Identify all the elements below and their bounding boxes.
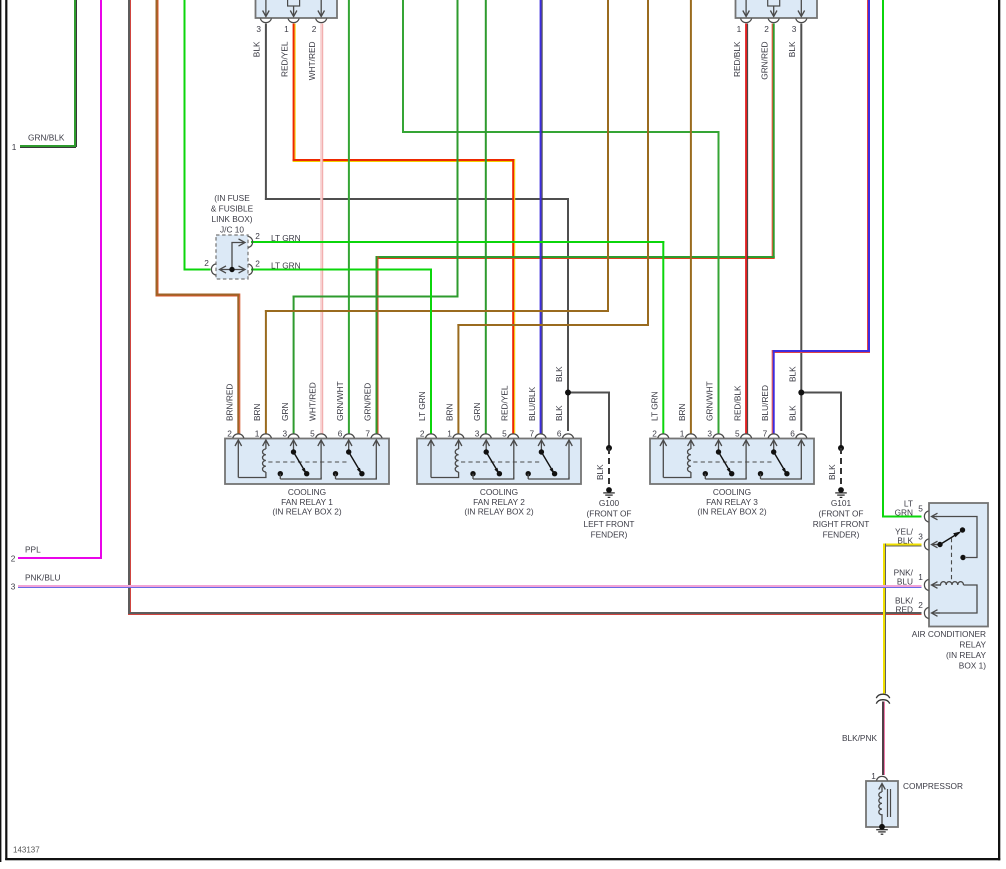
wire BRN horizontal run to relay 2: [457, 324, 649, 326]
svg-text:6: 6: [790, 429, 795, 439]
cooling fan relay 2 pin 1 arc: [453, 434, 464, 438]
svg-text:3: 3: [256, 24, 261, 34]
cooling fan relay 2 internals (coil and contacts): [428, 440, 573, 479]
svg-text:WHT/RED: WHT/RED: [307, 382, 317, 421]
wire BRN/RED vertical from top: [156, 0, 159, 296]
diagram border left: [5, 0, 7, 860]
wire BLK from fan motor 1 pin 3: [265, 24, 267, 201]
svg-text:BLK: BLK: [252, 41, 262, 57]
svg-text:BLK: BLK: [788, 405, 798, 421]
fan motor 2 pin 1 arc: [741, 18, 752, 22]
svg-text:6: 6: [557, 429, 562, 439]
svg-text:& FUSIBLE: & FUSIBLE: [211, 204, 254, 214]
wire BLK junction branch to G101: [801, 392, 842, 394]
svg-text:BLK: BLK: [788, 366, 798, 382]
svg-text:J/C 10: J/C 10: [220, 225, 244, 235]
compressor case ground: [876, 824, 888, 835]
wire GRN/RED from fan motor 2 pin 2: [772, 24, 775, 259]
wire BLK junction to relay 2 pin 6: [567, 393, 569, 432]
svg-text:COOLING: COOLING: [713, 487, 751, 497]
svg-text:BLK/PNK: BLK/PNK: [842, 733, 878, 743]
svg-text:(IN RELAY BOX 2): (IN RELAY BOX 2): [272, 507, 342, 517]
svg-text:WHT/RED: WHT/RED: [307, 41, 317, 80]
cooling fan relay 1 internals (coil and contacts): [235, 440, 380, 479]
fan motor 1 internal pin arrows and motor stub: [263, 0, 325, 17]
diagram border right: [998, 0, 1000, 860]
svg-text:GRN/WHT: GRN/WHT: [705, 381, 715, 421]
fan motor 1 connector box: [256, 0, 338, 18]
J/C 10 top right pin 2 arc: [248, 236, 252, 247]
wire GRN to relay 1 pin 3: [293, 296, 295, 435]
svg-text:(IN RELAY BOX 2): (IN RELAY BOX 2): [697, 507, 767, 517]
svg-text:GRN/RED: GRN/RED: [363, 383, 373, 421]
wire LT GRN from J/C 10 bottom pin: [251, 269, 432, 271]
fan motor 2 pin 3 arc: [796, 18, 807, 22]
cooling fan relay 3 internals (coil and contacts): [660, 440, 805, 479]
svg-text:BOX 1): BOX 1): [959, 661, 986, 671]
cooling fan relay 3 pin 5 arc: [741, 434, 752, 438]
svg-text:(FRONT OF: (FRONT OF: [818, 509, 863, 519]
fan motor 2 connector box: [736, 0, 818, 18]
wire GRN/BLK horizontal to pin 1: [20, 145, 76, 148]
wire BRN to relay 2 pin 1: [457, 324, 459, 435]
air conditioner relay upper contact dot: [960, 527, 965, 532]
wire BLU/RED vertical from top: [867, 0, 870, 352]
cooling fan relay 2 pin 7 arc: [535, 434, 546, 438]
svg-text:RED/BLK: RED/BLK: [732, 41, 742, 77]
svg-text:BLK: BLK: [554, 405, 564, 421]
junction connector J/C 10 box: [216, 235, 248, 279]
svg-text:3: 3: [11, 582, 16, 592]
svg-text:PPL: PPL: [25, 545, 41, 555]
fan motor 2 internal pin arrows and motor stub: [743, 0, 805, 17]
wire LT GRN to relay 3 pin 2: [662, 241, 664, 435]
cooling fan relay 1 pin 2 arc: [233, 434, 244, 438]
svg-text:1: 1: [871, 771, 876, 781]
wire BLK from fan motor 2 pin 3: [800, 24, 802, 393]
svg-text:GRN: GRN: [895, 508, 913, 518]
cooling fan relay 3 box: [650, 439, 814, 485]
cooling fan relay 1 pin 5 arc: [316, 434, 327, 438]
svg-text:1: 1: [918, 572, 923, 582]
air conditioner relay pin 2 arrow: [932, 610, 938, 617]
air conditioner relay internal switch: [936, 517, 977, 558]
svg-text:LT GRN: LT GRN: [417, 391, 427, 421]
svg-text:2: 2: [255, 231, 260, 241]
wire BRN/RED to relay 1 pin 2: [237, 294, 240, 435]
svg-text:LEFT FRONT: LEFT FRONT: [583, 519, 634, 529]
wire RED/YEL horizontal run: [293, 159, 515, 162]
svg-text:FAN RELAY 1: FAN RELAY 1: [281, 497, 333, 507]
svg-text:AIR CONDITIONER: AIR CONDITIONER: [912, 629, 986, 639]
wire GRN/WHT to relay 1 pin 6: [348, 0, 350, 435]
air conditioner relay pin 3 arc: [924, 539, 928, 550]
air conditioner relay pin 1 arc: [924, 579, 928, 590]
air conditioner relay lower contact dot: [960, 555, 965, 560]
wire GRN/RED to relay 1 pin 7: [376, 256, 379, 435]
wire YEL/BLK from A-C relay pin 3: [883, 544, 922, 547]
svg-text:BLU: BLU: [897, 577, 913, 587]
G100 dashed BLK segment: [608, 448, 610, 488]
wire GRN to relay 2 pin 3: [485, 0, 487, 435]
fan motor 1 pin 3 arc: [260, 18, 271, 22]
svg-text:(IN RELAY: (IN RELAY: [946, 650, 986, 660]
svg-text:1: 1: [12, 142, 17, 152]
cooling fan relay 1 pin 7 arc: [371, 434, 382, 438]
G101 ground symbol: [835, 487, 847, 498]
G100 splice dot: [606, 445, 612, 451]
svg-text:BLK: BLK: [554, 366, 564, 382]
wire BRN to relay 3 pin 1: [690, 0, 692, 435]
wire BLK horizontal run: [265, 198, 569, 200]
wire LT GRN vertical to J/C 10: [184, 0, 186, 271]
wire BRN/RED horizontal: [156, 294, 240, 297]
svg-text:BLK: BLK: [827, 464, 837, 480]
svg-text:RIGHT FRONT: RIGHT FRONT: [813, 519, 870, 529]
svg-text:5: 5: [502, 429, 507, 439]
compressor pin 1 arc: [876, 776, 887, 780]
svg-text:1: 1: [680, 429, 685, 439]
cooling fan relay 3 pin 2 arc: [658, 434, 669, 438]
svg-text:5: 5: [918, 504, 923, 514]
svg-text:LT GRN: LT GRN: [271, 261, 301, 271]
svg-text:G101: G101: [831, 498, 852, 508]
air conditioner relay pin 5 arrow: [932, 513, 938, 520]
svg-text:GRN: GRN: [280, 403, 290, 421]
svg-text:5: 5: [735, 429, 740, 439]
svg-text:RELAY: RELAY: [959, 640, 986, 650]
svg-text:BRN: BRN: [677, 403, 687, 421]
wire PPL vertical: [100, 0, 102, 559]
air conditioner relay pin 1 arrow: [932, 582, 938, 589]
svg-text:7: 7: [529, 429, 534, 439]
svg-text:GRN/RED: GRN/RED: [760, 41, 770, 79]
svg-text:COMPRESSOR: COMPRESSOR: [903, 781, 963, 791]
svg-text:2: 2: [204, 258, 209, 268]
cooling fan relay 3 pin 7 arc: [768, 434, 779, 438]
air conditioner relay pin 5 arc: [924, 511, 928, 522]
svg-text:FENDER): FENDER): [591, 530, 628, 540]
svg-text:2: 2: [255, 259, 260, 269]
wire BLK/RED vertical: [128, 0, 131, 614]
wire BRN vertical from top x648: [647, 0, 649, 326]
svg-text:2: 2: [227, 429, 232, 439]
wire BLK down toward G101: [840, 392, 842, 449]
cooling fan relay 2 pin 2 arc: [425, 434, 436, 438]
wire BLU/BLK to relay 2 pin 7: [540, 0, 543, 435]
air conditioner relay pin 2 arc: [924, 607, 928, 618]
svg-text:BRN: BRN: [252, 403, 262, 421]
cooling fan relay 3 pin 1 arc: [685, 434, 696, 438]
wire GRN/RED horizontal run: [376, 256, 775, 259]
svg-text:1: 1: [447, 429, 452, 439]
junction dot on BLK wire near G100: [565, 390, 571, 396]
svg-text:RED/YEL: RED/YEL: [499, 385, 509, 421]
wire BLU/RED horizontal run: [773, 350, 870, 353]
J/C 10 left pin 2 arc: [211, 264, 215, 275]
wire GRN vertical from top: [457, 0, 459, 298]
cooling fan relay 2 pin 5 arc: [508, 434, 519, 438]
wire GRN/WHT vertical from top: [402, 0, 404, 133]
air conditioner relay switch common dot: [937, 542, 942, 547]
cooling fan relay 1 pin 1 arc: [260, 434, 271, 438]
svg-text:FENDER): FENDER): [823, 530, 860, 540]
svg-text:BLK: BLK: [787, 41, 797, 57]
svg-text:LINK BOX): LINK BOX): [211, 214, 252, 224]
svg-text:BLU/RED: BLU/RED: [760, 385, 770, 421]
svg-text:RED/YEL: RED/YEL: [279, 41, 289, 77]
svg-text:2: 2: [11, 554, 16, 564]
wire BLK/PNK to compressor: [882, 702, 885, 776]
svg-text:(IN RELAY BOX 2): (IN RELAY BOX 2): [464, 507, 534, 517]
wire LT GRN into J/C 10 left pin: [184, 269, 211, 271]
svg-text:GRN/WHT: GRN/WHT: [335, 381, 345, 421]
svg-text:(IN FUSE: (IN FUSE: [214, 193, 250, 203]
cooling fan relay 2 pin 6 arc: [562, 434, 573, 438]
cooling fan relay 3 pin 3 arc: [713, 434, 724, 438]
svg-text:BLU/BLK: BLU/BLK: [527, 386, 537, 421]
svg-text:RED/BLK: RED/BLK: [732, 385, 742, 421]
wire BLK down toward G100: [608, 392, 610, 449]
wire BRN vertical from top x608: [607, 0, 609, 312]
svg-text:3: 3: [707, 429, 712, 439]
air conditioner relay coil: [936, 582, 977, 613]
cooling fan relay 1 box: [225, 439, 389, 485]
svg-text:G100: G100: [599, 498, 620, 508]
wire BRN to relay 1 pin 1: [265, 310, 267, 435]
wire RED/YEL to relay 2 pin 5: [512, 159, 515, 435]
wire LT GRN into A-C relay pin 5: [882, 516, 922, 518]
svg-text:PNK/BLU: PNK/BLU: [25, 573, 61, 583]
svg-text:3: 3: [918, 532, 923, 542]
svg-text:1: 1: [255, 429, 260, 439]
fan motor 1 pin 2 arc: [316, 18, 327, 22]
wire LT GRN from J/C 10 top pin: [251, 241, 664, 243]
svg-text:2: 2: [420, 429, 425, 439]
svg-text:1: 1: [737, 24, 742, 34]
wire YEL/BLK down to connector: [883, 544, 886, 694]
wire RED/BLK fan motor 2 pin 1 to relay 3 pin 5: [745, 24, 748, 435]
compressor internal clutch coil: [879, 784, 891, 825]
svg-text:FAN RELAY 3: FAN RELAY 3: [706, 497, 758, 507]
diagram border bottom: [5, 858, 1000, 860]
svg-text:3: 3: [282, 429, 287, 439]
G101 splice dot: [838, 445, 844, 451]
svg-text:143137: 143137: [13, 846, 40, 855]
cooling fan relay 2 pin 3 arc: [480, 434, 491, 438]
air conditioner relay mechanical link dashed line: [951, 538, 953, 583]
fan motor 2 pin 2 arc: [768, 18, 779, 22]
svg-text:LT GRN: LT GRN: [650, 391, 660, 421]
svg-text:COOLING: COOLING: [480, 487, 518, 497]
cooling fan relay 2 box: [417, 439, 581, 485]
wire BLK junction branch to G100: [568, 392, 610, 394]
wire GRN horizontal run: [293, 296, 459, 298]
wire BLK down to junction: [567, 198, 569, 393]
diagram outer border left line: [0, 0, 1, 862]
wire BLK/RED horizontal to A-C relay pin 2: [128, 612, 922, 615]
svg-text:3: 3: [792, 24, 797, 34]
air conditioner relay pin 3 arrow: [932, 541, 938, 548]
wire BLK junction to relay 3 pin 6: [800, 393, 802, 432]
svg-text:6: 6: [338, 429, 343, 439]
svg-text:7: 7: [763, 429, 768, 439]
svg-text:BRN: BRN: [445, 403, 455, 421]
wire PNK/BLU horizontal to A-C relay pin 1: [18, 585, 922, 588]
compressor box: [866, 781, 898, 827]
svg-text:LT GRN: LT GRN: [271, 233, 301, 243]
svg-text:2: 2: [652, 429, 657, 439]
J/C 10 internal junction dot: [229, 267, 234, 272]
J/C 10 bottom right pin 2 arc: [248, 264, 252, 275]
svg-text:GRN/BLK: GRN/BLK: [28, 133, 65, 143]
svg-text:GRN: GRN: [472, 403, 482, 421]
svg-text:BRN/RED: BRN/RED: [225, 384, 235, 421]
air conditioner relay box: [929, 503, 988, 627]
svg-text:7: 7: [365, 429, 370, 439]
svg-text:1: 1: [284, 24, 289, 34]
wire BRN horizontal run to relay 1: [265, 310, 609, 312]
wire BLU/RED to relay 3 pin 7: [772, 350, 775, 435]
wire LT GRN to relay 2 pin 2: [430, 269, 432, 435]
svg-text:2: 2: [918, 600, 923, 610]
svg-text:5: 5: [310, 429, 315, 439]
svg-text:2: 2: [764, 24, 769, 34]
svg-text:2: 2: [312, 24, 317, 34]
fan motor 1 pin 1 arc: [288, 18, 299, 22]
cooling fan relay 1 pin 3 arc: [288, 434, 299, 438]
wire GRN/WHT horizontal run: [402, 131, 720, 133]
cooling fan relay 1 pin 6 arc: [343, 434, 354, 438]
svg-text:(FRONT OF: (FRONT OF: [586, 509, 631, 519]
in-line connector halves on YEL/BLK to BLK/PNK wire: [876, 694, 889, 698]
svg-text:FAN RELAY 2: FAN RELAY 2: [473, 497, 525, 507]
svg-text:3: 3: [475, 429, 480, 439]
svg-text:COOLING: COOLING: [288, 487, 326, 497]
wire GRN/WHT to relay 3 pin 3: [718, 131, 720, 435]
svg-text:RED: RED: [895, 605, 913, 615]
svg-text:BLK: BLK: [897, 536, 913, 546]
wire GRN/BLK from connector 1: [74, 0, 77, 147]
wire RED/YEL from fan motor 1 pin 1: [293, 24, 296, 162]
J/C 10 internal bus: [220, 239, 246, 273]
cooling fan relay 3 pin 6 arc: [796, 434, 807, 438]
wire PPL horizontal to pin 2: [18, 557, 102, 559]
junction dot on BLK wire near G101: [798, 390, 804, 396]
G101 dashed BLK segment: [840, 448, 842, 488]
wire LT GRN vertical to A-C relay: [882, 0, 884, 518]
svg-text:BLK: BLK: [595, 464, 605, 480]
G100 ground symbol: [603, 487, 615, 498]
wire WHT/RED fan motor 1 pin 2 to relay 1 pin 5: [320, 24, 323, 435]
